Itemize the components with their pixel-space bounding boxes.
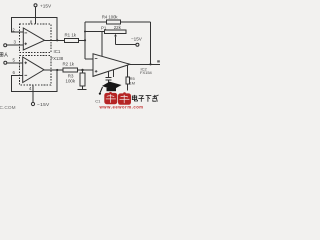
svg-text:−15V: −15V xyxy=(37,102,50,108)
svg-text:R1 1k: R1 1k xyxy=(65,32,77,37)
svg-text:IC1: IC1 xyxy=(54,49,61,54)
svg-text:P1: P1 xyxy=(101,26,107,31)
svg-text:C1: C1 xyxy=(95,99,101,104)
svg-text:R4 100k: R4 100k xyxy=(102,15,119,20)
svg-text:FX154: FX154 xyxy=(140,70,153,75)
svg-text:FX138: FX138 xyxy=(51,56,64,61)
svg-text:C.COM: C.COM xyxy=(0,105,16,110)
svg-text:−15V: −15V xyxy=(131,37,143,42)
svg-text:1M: 1M xyxy=(129,80,135,85)
svg-text:R2 1k: R2 1k xyxy=(63,61,75,66)
svg-text:22k: 22k xyxy=(114,25,122,30)
svg-text:+15V: +15V xyxy=(40,3,52,8)
svg-text:www.eeworm.com: www.eeworm.com xyxy=(99,104,144,109)
svg-text:100k: 100k xyxy=(66,78,76,83)
